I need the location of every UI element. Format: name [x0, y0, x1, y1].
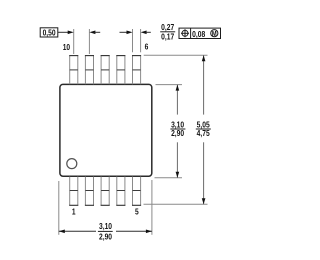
feature control frame divider — [190, 28, 192, 38]
bottom pin 5 — [133, 177, 141, 206]
extension line from body bottom right — [155, 177, 183, 179]
svg-text:4,75: 4,75 — [197, 128, 211, 138]
svg-text:M: M — [212, 30, 217, 38]
bottom pin 3 — [101, 177, 109, 206]
svg-text:5: 5 — [135, 207, 139, 217]
top pin 7 — [117, 56, 125, 85]
pin-1 index circle — [67, 159, 77, 169]
extension line body left (bottom width) — [58, 181, 60, 235]
extension line from pin6 top (overall height) — [144, 54, 208, 56]
feature control frame box — [179, 28, 221, 38]
body width dimension line 3,10/2,90 — [59, 230, 96, 232]
extension line body right (bottom width) — [151, 180, 153, 235]
svg-text:2,90: 2,90 — [99, 232, 112, 242]
svg-text:1: 1 — [72, 207, 76, 217]
extension line pin6 left edge — [132, 29, 134, 52]
bottom pin 4 — [117, 177, 125, 206]
extension line pin6 right edge — [140, 29, 142, 52]
body height dimension line 3,10/2,90 — [176, 85, 178, 115]
bottom pin 1 — [70, 177, 78, 206]
svg-text:0,08: 0,08 — [192, 29, 206, 39]
svg-text:0,17: 0,17 — [161, 32, 174, 42]
top pin 10 — [70, 56, 78, 85]
svg-text:0,50: 0,50 — [43, 28, 56, 38]
true position symbol — [182, 30, 188, 36]
0,50 dimension box — [40, 28, 58, 37]
overall height dimension line 5,05/4,75 — [203, 55, 205, 114]
svg-text:10: 10 — [63, 42, 70, 52]
top pin 9 — [85, 56, 93, 85]
svg-text:6: 6 — [145, 42, 149, 52]
MMC modifier symbol — [211, 30, 218, 37]
extension line from bottom pins bottom (overall height) — [144, 203, 208, 205]
top pin 8 — [101, 56, 109, 85]
svg-text:3,10: 3,10 — [99, 221, 112, 231]
extension line from body top right — [156, 84, 183, 86]
extension line pin9 center — [88, 29, 90, 54]
svg-text:2,90: 2,90 — [171, 128, 184, 138]
0,50 dimension leader and arrows — [58, 31, 69, 33]
IC package body — [60, 84, 152, 176]
bottom pin 2 — [85, 177, 93, 206]
extension line pin10 center — [73, 29, 75, 54]
top pin 6 — [133, 56, 141, 85]
0,27/0,17 dimension arrows — [120, 31, 128, 33]
